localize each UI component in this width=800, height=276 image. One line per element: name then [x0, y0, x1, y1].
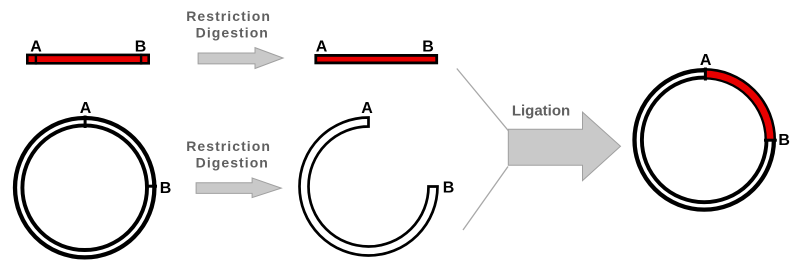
site A tick (plasmid): [84, 116, 87, 129]
svg-text:B: B: [443, 180, 455, 197]
plasmid circle (uncut) inner ring: [22, 125, 147, 250]
svg-text:Ligation: Ligation: [512, 103, 570, 120]
linear DNA fragment (uncut): [27, 55, 148, 63]
converging line (lower): [463, 167, 508, 231]
block arrow Ligation: [508, 112, 620, 181]
svg-text:A: A: [700, 52, 712, 69]
svg-text:A: A: [361, 100, 373, 117]
restriction site divider A: [35, 54, 37, 65]
converging line (upper): [457, 69, 509, 132]
ligated plasmid outer ring: [635, 70, 774, 209]
site B tick (plasmid): [145, 185, 157, 188]
svg-text:A: A: [80, 100, 92, 117]
svg-text:B: B: [135, 38, 147, 55]
svg-text:B: B: [422, 39, 434, 56]
cut linear fragment: [316, 55, 437, 63]
block arrow (top restriction digestion): [198, 48, 283, 69]
svg-text:A: A: [316, 39, 328, 56]
svg-text:B: B: [160, 180, 172, 197]
svg-text:Digestion: Digestion: [196, 155, 269, 171]
svg-text:Digestion: Digestion: [196, 25, 269, 41]
restriction site divider B: [140, 54, 142, 65]
ligated plasmid inner ring: [642, 78, 767, 203]
svg-text:Restriction: Restriction: [186, 138, 271, 154]
inserted fragment red arc: [704, 74, 770, 140]
svg-text:Restriction: Restriction: [186, 8, 271, 24]
junction B tick (ligated plasmid): [764, 139, 777, 142]
junction A tick (ligated plasmid): [704, 68, 707, 81]
opened plasmid (C shape): [300, 118, 438, 256]
plasmid circle (uncut) outer ring: [15, 118, 154, 257]
svg-text:B: B: [778, 132, 790, 149]
block arrow (middle restriction digestion): [196, 178, 281, 198]
svg-text:A: A: [30, 38, 42, 55]
